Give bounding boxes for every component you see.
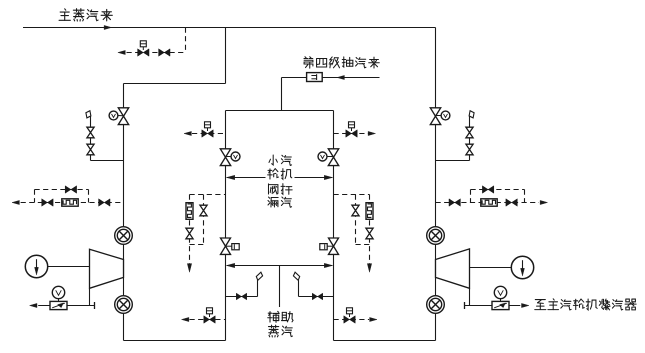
valve on left bypass bbox=[65, 186, 71, 193]
flag vent top-left bbox=[86, 111, 91, 118]
gauge at center-right valve bbox=[318, 152, 327, 161]
valve on left drain loop inner bbox=[200, 205, 207, 210]
wire: seal steam arrow line lower bbox=[227, 265, 333, 267]
wire: auxiliary steam drop bbox=[279, 266, 281, 308]
label: gland seal steam (小汽轮机阀杆漏汽) bbox=[266, 153, 295, 210]
wire: left turbine drain line bbox=[38, 305, 94, 307]
gauge at right main valve bbox=[441, 111, 450, 120]
valve left station outer bbox=[42, 199, 48, 206]
steam trap right drain bbox=[492, 301, 509, 309]
valve lower on right vent branch bbox=[466, 144, 473, 149]
flow arrow left (drain) bbox=[118, 50, 125, 54]
wire: left drain loop dashed bbox=[190, 194, 226, 196]
flag vent right aux bbox=[293, 272, 299, 280]
valve on left drain loop outer bbox=[186, 228, 193, 233]
wire: left main vertical bbox=[123, 84, 125, 341]
wire: right bottom header bbox=[334, 340, 436, 342]
valve (isolation) on header drain bbox=[159, 49, 165, 56]
valve on right drain loop outer bbox=[366, 228, 373, 233]
blank flange tick right drain bbox=[464, 302, 466, 309]
wire: dashed vent right of box bbox=[334, 133, 369, 135]
wire: left turbine drain drop bbox=[89, 288, 91, 305]
flow arrow extraction (left) bbox=[337, 75, 344, 79]
flow arrow on main steam header bbox=[104, 25, 111, 29]
strainer on left drain loop bbox=[186, 203, 193, 220]
wire: right turbine drain line bbox=[465, 305, 521, 307]
valve on center-left vertical bbox=[220, 149, 230, 157]
flow arrow box vent left bbox=[184, 131, 191, 135]
valve with side box on center-right bbox=[329, 238, 339, 246]
wire: right station main dashed line bbox=[436, 202, 540, 204]
valve on center-right vertical bbox=[328, 149, 338, 157]
wire: left vent branch bbox=[90, 117, 92, 161]
gauge on left steam trap bbox=[52, 286, 64, 298]
flow arrow left station outlet bbox=[12, 200, 19, 204]
wire: header jog vertical at x=225 bbox=[225, 28, 227, 84]
wire: header jog horizontal to left column bbox=[124, 83, 226, 85]
wire: seal steam arrow line upper bbox=[227, 177, 333, 179]
wire: dashed drain bottom-left of box bbox=[190, 319, 226, 321]
wire: main steam header bbox=[23, 27, 436, 29]
flow arrow bottom-left drain bbox=[182, 317, 189, 321]
wire: dashed drain bottom-right of box bbox=[334, 319, 370, 321]
restrictor upper on right main bbox=[427, 227, 445, 245]
valve with actuator bottom-right drain bbox=[344, 316, 350, 323]
instrument (speed) left turbine bbox=[25, 255, 47, 277]
turbine (right gland steam turbine) bbox=[436, 249, 470, 288]
flag vent left aux bbox=[256, 272, 262, 280]
wire: right turbine instrument line bbox=[470, 267, 512, 269]
flow arrow box vent right bbox=[368, 131, 375, 135]
blank flange tick left drain bbox=[94, 302, 96, 309]
wire: center-right vertical bbox=[333, 111, 335, 341]
valve on right aux connection bbox=[312, 293, 317, 300]
strainer right station bbox=[481, 199, 497, 206]
label: to main turbine condenser (至主汽轮机凝汽器) bbox=[535, 300, 546, 310]
orifice/check element on extraction line bbox=[307, 73, 323, 82]
wire: right aux connection bbox=[299, 296, 334, 298]
valve on left aux connection bbox=[236, 293, 241, 300]
valve upper on left vent branch bbox=[87, 127, 94, 132]
wire: left bottom header bbox=[124, 340, 226, 342]
valve with actuator on header drain bbox=[138, 49, 144, 56]
wire: left turbine instrument line bbox=[48, 266, 90, 268]
flow arrow left drain bbox=[30, 303, 37, 307]
wire: dashed drain line to left bbox=[127, 52, 186, 54]
gauge on right steam trap bbox=[494, 286, 506, 298]
wire: left aux riser bbox=[257, 280, 259, 296]
wire: right aux riser bbox=[298, 280, 300, 296]
gauge at left main valve bbox=[109, 111, 118, 120]
wire: right vent branch bbox=[469, 117, 471, 161]
wire: center-left vertical bbox=[225, 111, 227, 341]
wire: right turbine drain drop bbox=[469, 288, 471, 305]
flow arrow right station outlet bbox=[540, 200, 547, 204]
wire: right drain loop dashed bbox=[334, 194, 370, 196]
flow arrow down right drain loop bbox=[367, 264, 371, 273]
valve on right main vertical bbox=[430, 108, 440, 116]
restrictor upper on left main bbox=[115, 227, 133, 245]
valve with side box on center-left bbox=[221, 238, 231, 246]
flow arrow down left drain loop bbox=[187, 264, 191, 273]
wire: left aux connection bbox=[226, 296, 258, 298]
valve right station inner bbox=[449, 199, 455, 206]
valve on right bypass bbox=[482, 186, 488, 193]
label: main steam source (主蒸汽来) bbox=[59, 9, 70, 21]
wire: center box top header bbox=[226, 110, 334, 112]
label: 4th stage extraction (第四级抽汽来) bbox=[304, 57, 313, 68]
valve left station inner bbox=[99, 199, 105, 206]
valve with actuator on right box vent bbox=[346, 130, 352, 137]
flag vent top-right bbox=[469, 111, 474, 118]
gauge at center-left valve bbox=[231, 152, 240, 161]
valve lower on left vent branch bbox=[87, 144, 94, 149]
turbine (left gland steam turbine) bbox=[90, 249, 124, 288]
restrictor lower on left main bbox=[115, 296, 133, 314]
wire: extraction drop to box bbox=[281, 78, 283, 111]
valve upper on right vent branch bbox=[466, 127, 473, 132]
wire: left station bypass bbox=[35, 189, 89, 191]
wire: dashed vent left of box bbox=[192, 133, 226, 135]
valve on right drain loop inner bbox=[352, 205, 359, 210]
strainer on right drain loop bbox=[366, 203, 373, 220]
label: auxiliary steam (辅助蒸汽) bbox=[268, 311, 280, 322]
strainer left station bbox=[62, 199, 78, 206]
flow arrow bottom-right drain bbox=[370, 317, 377, 321]
wire: right main vertical bbox=[435, 28, 437, 341]
instrument (speed) right turbine bbox=[511, 256, 533, 278]
valve right station outer bbox=[506, 199, 512, 206]
valve on left main vertical bbox=[118, 108, 128, 116]
wire: dashed drop from header bbox=[185, 28, 187, 53]
wire: left station main dashed line bbox=[21, 202, 124, 204]
restrictor lower on right main bbox=[427, 296, 445, 314]
steam trap left drain bbox=[50, 301, 67, 309]
wire: extraction steam line bbox=[282, 77, 380, 79]
wire: right station bypass bbox=[471, 189, 525, 191]
flow arrow right drain (to condenser) bbox=[522, 303, 529, 307]
valve with actuator bottom-left drain bbox=[204, 316, 210, 323]
valve with actuator on left box vent bbox=[202, 130, 208, 137]
